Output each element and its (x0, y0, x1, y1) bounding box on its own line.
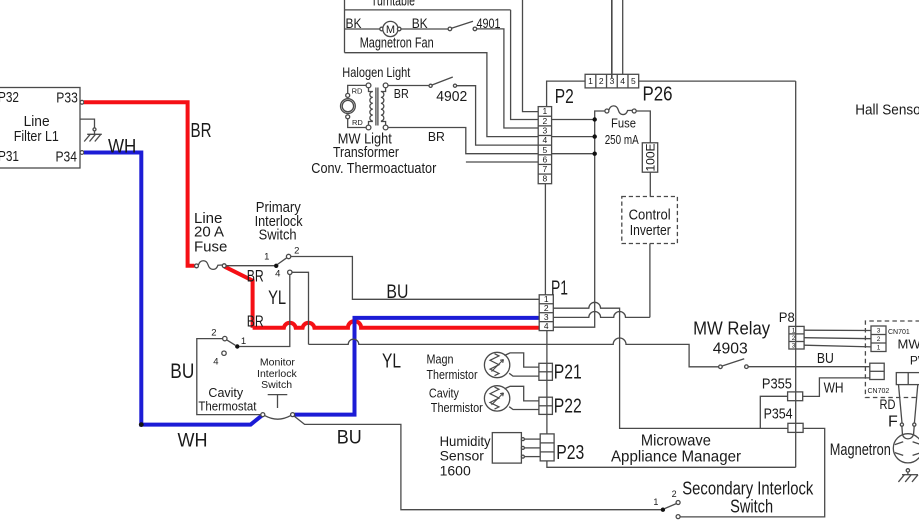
svg-text:P8: P8 (779, 309, 795, 325)
wire into P26 pin 3 (from top) (611, 0, 613, 79)
svg-text:P355: P355 (762, 375, 792, 392)
svg-text:Switch: Switch (261, 379, 292, 391)
svg-text:YL: YL (382, 350, 401, 372)
svg-text:Turntable: Turntable (371, 0, 415, 10)
svg-text:2: 2 (877, 336, 881, 343)
svg-text:Fuse: Fuse (611, 115, 636, 130)
svg-text:P2: P2 (555, 86, 574, 108)
connector CN701 (871, 326, 910, 352)
svg-text:4903: 4903 (713, 340, 748, 357)
svg-text:P354: P354 (764, 406, 793, 423)
svg-text:5: 5 (631, 76, 636, 86)
svg-text:BR: BR (247, 314, 264, 331)
wire BR red from P33 (84, 102, 539, 327)
svg-text:CN702: CN702 (868, 388, 890, 395)
svg-text:3: 3 (877, 328, 881, 335)
wire into P26 pin 4 (from top) (622, 0, 624, 74)
wire node column V1 to P1 pin 4 (553, 111, 605, 327)
resistor R 100E (642, 143, 657, 172)
svg-text:1600: 1600 (440, 463, 471, 479)
svg-text:4: 4 (620, 76, 625, 86)
connector P2 (538, 86, 574, 184)
svg-text:4: 4 (543, 135, 548, 145)
svg-text:BU: BU (170, 360, 194, 383)
svg-text:Thermistor: Thermistor (427, 367, 479, 382)
svg-text:F: F (888, 414, 898, 431)
wire YL primary-4 down to monitor-1 (240, 275, 290, 347)
wire thermoactuator to P2 pin 7 (466, 161, 538, 163)
svg-text:P23: P23 (556, 442, 584, 464)
switch 4902 (429, 77, 467, 105)
connector CN702 (868, 363, 890, 395)
wire turntable to P2 pin 2 (511, 10, 539, 120)
svg-text:Thermostat: Thermostat (198, 399, 256, 413)
wire resistor to control inverter (649, 172, 651, 196)
svg-text:BR: BR (394, 86, 409, 101)
svg-text:CN701: CN701 (888, 329, 910, 336)
svg-text:BU: BU (817, 350, 834, 367)
connector P355 (762, 375, 803, 400)
thermistor RT2 (cavity) (429, 385, 510, 414)
svg-text:Control: Control (629, 206, 671, 223)
label BR (red lower) (247, 314, 264, 331)
svg-text:1: 1 (264, 251, 269, 262)
svg-text:Thermistor: Thermistor (431, 400, 484, 415)
svg-text:Conv. Thermoactuator: Conv. Thermoactuator (311, 160, 436, 177)
wire P2 pin 6 to node (552, 153, 595, 155)
label BR (fuse right) (247, 266, 264, 285)
svg-text:Magn: Magn (427, 352, 454, 367)
svg-text:P32: P32 (0, 89, 19, 106)
control inverter (dashed box) (622, 197, 678, 244)
svg-text:Cavity: Cavity (208, 386, 243, 400)
svg-text:4: 4 (213, 356, 218, 367)
svg-text:RD: RD (880, 397, 896, 412)
connector P22 (539, 396, 582, 418)
wire BU relay to CN702 (748, 350, 869, 367)
wire fuse to resistor (636, 111, 650, 143)
wire branch to P355 (760, 396, 787, 428)
transformer labels (311, 131, 436, 177)
svg-text:1: 1 (543, 106, 548, 116)
wire YL line D to MW relay (with hops) (292, 272, 719, 372)
wire P26 pin 1 to P2 pin 1 (547, 81, 586, 107)
wire 4902 to P2 pin 5 (457, 86, 539, 145)
halogen light label (342, 64, 410, 80)
wire BU monitor to secondary interlock (294, 416, 661, 510)
svg-text:Monitor: Monitor (260, 356, 296, 368)
wire P2 pin 8 to P1 (544, 184, 546, 295)
svg-text:P22: P22 (554, 396, 582, 418)
svg-text:1: 1 (877, 345, 881, 352)
svg-text:3: 3 (543, 125, 548, 135)
svg-text:WH: WH (178, 430, 208, 451)
wire P2 pin 2 to node (552, 119, 595, 121)
wire P1 to P21/P22/P23 chain (546, 331, 548, 434)
svg-text:Magnetron Fan: Magnetron Fan (360, 35, 434, 52)
wire secondary interlock to P354 (680, 428, 825, 517)
wire 4901 to P2 pin 3 (477, 29, 539, 128)
filament transformer (880, 373, 919, 431)
svg-text:BU: BU (386, 282, 408, 303)
svg-text:Inverter: Inverter (630, 222, 671, 239)
wire RD top (348, 85, 366, 95)
svg-text:Transformer: Transformer (333, 144, 399, 161)
node dot pin2 (593, 117, 597, 121)
svg-text:BR: BR (247, 266, 264, 285)
turntable (box cut at top edge) (345, 0, 511, 10)
label BU (left) (170, 360, 194, 383)
wire WH CN702 to P355 (803, 378, 870, 397)
node dot blue corner (139, 422, 144, 427)
svg-text:BR: BR (191, 120, 212, 142)
svg-text:4: 4 (275, 268, 280, 279)
svg-text:PWB: PWB (910, 353, 919, 367)
wire thermostat-2 to monitor switch (197, 339, 261, 415)
microwave appliance manager label (611, 433, 742, 466)
wire BU primary-2 to P1 pin 1 (291, 257, 539, 304)
svg-text:RD: RD (352, 118, 363, 127)
wire BK right (401, 15, 448, 31)
fuse F2 250 mA (605, 106, 639, 147)
svg-text:Hall Sensor: Hall Sensor (855, 101, 919, 118)
node dot pin6 (593, 152, 597, 156)
thermistor RT1 (magn) (427, 352, 510, 383)
wires P8 to CN701 (804, 330, 871, 347)
label WH (top) (108, 136, 136, 157)
halogen lamp (341, 93, 356, 118)
svg-text:MW Inv: MW Inv (898, 336, 919, 351)
hall sensor label (855, 101, 919, 118)
connector P8 (779, 309, 804, 350)
svg-text:2: 2 (672, 489, 677, 499)
svg-text:2: 2 (543, 116, 548, 126)
wire BR transformer to P2 pin 6 (388, 128, 538, 154)
label WH (bottom) (178, 430, 208, 451)
svg-text:P33: P33 (56, 89, 78, 106)
svg-text:P34: P34 (56, 149, 78, 166)
ground (magnetron) (898, 469, 918, 482)
svg-text:1: 1 (653, 497, 658, 507)
svg-text:P21: P21 (554, 362, 582, 384)
svg-text:WH: WH (824, 380, 844, 397)
svg-text:Interlock: Interlock (257, 368, 297, 380)
svg-text:Magnetron: Magnetron (830, 440, 891, 459)
svg-text:6: 6 (543, 154, 548, 164)
transformer T1 (MW light transformer) (366, 83, 388, 130)
svg-text:Fuse: Fuse (194, 239, 227, 256)
svg-text:Filter L1: Filter L1 (14, 128, 59, 145)
svg-text:RD: RD (352, 86, 363, 95)
svg-text:Cavity: Cavity (429, 385, 459, 400)
cavity thermostat switch (198, 328, 256, 414)
secondary interlock switch (653, 479, 814, 519)
connector P23 (540, 434, 584, 464)
wire main right vertical (795, 81, 797, 467)
svg-text:MW Relay: MW Relay (693, 318, 770, 338)
svg-text:5: 5 (543, 145, 548, 155)
magnetron fan label (360, 35, 434, 52)
connector P21 (539, 362, 582, 384)
wire manager box bottom (547, 461, 796, 467)
svg-text:YL: YL (268, 288, 286, 309)
svg-text:BU: BU (337, 427, 362, 448)
svg-text:1: 1 (588, 76, 593, 86)
svg-text:2: 2 (211, 328, 216, 339)
svg-text:8: 8 (543, 174, 548, 184)
svg-text:P1: P1 (551, 278, 568, 300)
svg-text:P31: P31 (0, 148, 19, 165)
svg-text:Halogen Light: Halogen Light (342, 64, 410, 80)
motor M (magnetron fan) (380, 21, 401, 36)
svg-text:BR: BR (428, 129, 445, 144)
connector P354 (764, 406, 804, 433)
wire fuse to primary interlock (226, 265, 274, 267)
svg-text:Switch: Switch (730, 497, 773, 517)
wire control inverter to P1 pin 3 (with hops) (553, 244, 650, 318)
svg-text:Switch: Switch (259, 226, 297, 243)
label BR (top) (191, 120, 212, 142)
svg-text:100E: 100E (643, 143, 657, 171)
wire BK left (345, 15, 383, 31)
line filter L1 (0, 88, 84, 169)
connector P26 (585, 74, 672, 105)
wire top to P2 pin 1 (523, 0, 539, 112)
wire RT2 to P22 (505, 386, 539, 409)
svg-text:250 mA: 250 mA (605, 132, 639, 147)
svg-text:2: 2 (599, 76, 604, 86)
node dot pin4 (593, 134, 597, 138)
svg-text:4902: 4902 (436, 88, 467, 105)
svg-text:Humidity: Humidity (440, 433, 491, 449)
wire WH blue from P34 (84, 153, 539, 425)
wire fan loop to P2 pin 4 (345, 53, 539, 137)
wire P26 pin 5 to right vertical (639, 80, 796, 82)
wire RT1 to P21 (505, 353, 539, 376)
relay RY1 MW relay 4903 (693, 318, 770, 368)
ground (line filter) (80, 119, 102, 141)
svg-text:7: 7 (543, 164, 548, 174)
fuse F1 line 20A (194, 210, 227, 269)
wire P1 pin 2 to manager box (with hop) (553, 302, 788, 428)
connector P1 (539, 278, 568, 331)
wire BR transformer to 4902 (388, 86, 429, 101)
svg-text:Appliance Manager: Appliance Manager (611, 449, 742, 466)
svg-text:P26: P26 (643, 84, 673, 106)
humidity sensor 1600 (440, 433, 541, 479)
mw inverter pwb (dashed box) (865, 321, 919, 398)
svg-text:BK: BK (412, 15, 429, 31)
svg-text:Microwave: Microwave (641, 433, 711, 450)
svg-text:2: 2 (294, 245, 299, 256)
wire RD bottom (348, 118, 366, 128)
svg-text:Sensor: Sensor (440, 448, 485, 464)
primary interlock switch (255, 199, 303, 279)
svg-text:1: 1 (241, 336, 246, 347)
magnetron V1 tube (830, 426, 919, 463)
svg-text:WH: WH (108, 136, 136, 157)
switch 4901 (448, 15, 501, 31)
monitor interlock switch (257, 356, 297, 419)
svg-text:4: 4 (544, 321, 549, 331)
wire P2 pin 4 to node (552, 136, 595, 138)
svg-text:BK: BK (346, 15, 363, 31)
magnetron fan loop left edge (344, 10, 346, 53)
